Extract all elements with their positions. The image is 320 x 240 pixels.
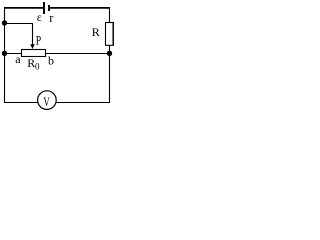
wiper arrowhead [30,44,35,49]
wire middle-right segment [46,53,110,55]
node junction dot lower-left [2,51,7,56]
wire right vertical upper [109,7,111,23]
svg-text:ε: ε [37,10,42,24]
resistor R body [106,23,114,46]
battery cell short thick plate [48,5,50,11]
svg-text:V: V [43,94,50,109]
battery cell long plate [43,2,45,14]
wire top-left segment [4,7,43,9]
node junction dot upper-left [2,20,7,25]
svg-text:b: b [48,54,54,68]
wire top-right segment [50,7,110,9]
wire bottom-right segment [56,102,110,104]
node junction dot at resistor bottom [107,51,112,56]
resistor R right edge thick [112,22,114,46]
svg-text:P: P [36,34,41,48]
wire left vertical [4,7,6,103]
svg-text:a: a [15,52,21,66]
svg-text:0: 0 [35,62,40,72]
rheostat R0 body [22,50,46,57]
wire middle-left segment [4,53,22,55]
svg-text:R: R [27,56,35,70]
wire wiper branch horizontal [4,23,33,25]
wire wiper branch vertical [32,24,34,46]
voltmeter V body [38,91,57,110]
wire right vertical lower [109,45,111,103]
svg-text:R: R [92,25,100,39]
wire bottom-left segment [4,102,39,104]
